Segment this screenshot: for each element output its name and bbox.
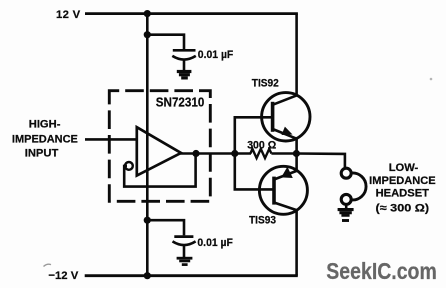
svg-text:SeekIC.com: SeekIC.com	[326, 258, 437, 284]
ground for C2	[177, 258, 193, 264]
wire jack to ground	[345, 205, 348, 209]
wire branch to capacitor C1	[147, 35, 184, 50]
wire input to op-amp	[85, 138, 137, 141]
Q2 emitter arrowhead	[281, 167, 293, 178]
svg-text:LOW-: LOW-	[389, 162, 419, 174]
wire TIS93 collector to -12V rail	[295, 210, 298, 276]
transistor Q2 TIS93 (PNP)	[259, 166, 307, 214]
wire +12V vertical drop through op-amp to -12V rail	[146, 14, 149, 276]
node op-amp output	[192, 150, 199, 157]
svg-text:0.01 µF: 0.01 µF	[197, 237, 233, 249]
capacitor C2 0.01 µF	[173, 237, 196, 257]
svg-text:INPUT: INPUT	[25, 148, 59, 160]
op-amp U1 package dashed box	[109, 91, 210, 202]
svg-text:SN72310: SN72310	[156, 94, 205, 109]
node -12V rail junction	[144, 272, 151, 279]
wire to TIS93 base	[235, 154, 273, 190]
headset jack sleeve contact (bottom circle)	[341, 194, 351, 204]
svg-text:IMPEDANCE: IMPEDANCE	[369, 175, 436, 187]
node transistor bases junction	[231, 150, 238, 157]
wire to TIS92 base	[235, 117, 272, 153]
wire TIS92 emitter to emitters node	[295, 139, 298, 154]
op-amp U1 triangle	[137, 127, 181, 175]
resistor R1 300 ohm	[250, 149, 271, 158]
wire TIS93 emitter to emitters node	[295, 154, 298, 171]
label LOW-IMPEDANCE HEADSET	[369, 162, 436, 214]
ground for headset jack	[338, 210, 354, 221]
headset earpiece arc	[351, 173, 366, 200]
wire output to headset jack	[297, 154, 345, 168]
transistor Q1 TIS92 (NPN)	[262, 93, 310, 141]
node emitters junction	[293, 150, 300, 157]
svg-text:TIS93: TIS93	[249, 214, 276, 226]
svg-text:−12 V: −12 V	[48, 270, 78, 282]
scan artifact squiggle near -12V label	[44, 264, 52, 266]
wire TIS92 collector to +12V rail	[295, 14, 298, 96]
scan artifact speck top right	[430, 78, 433, 81]
wire branch to capacitor C2	[147, 220, 184, 235]
capacitor C1 0.01 µF	[172, 50, 196, 70]
wire -12V rail	[85, 274, 298, 277]
svg-text:IMPEDANCE: IMPEDANCE	[12, 133, 79, 145]
svg-text:HEADSET: HEADSET	[376, 188, 430, 200]
svg-text:0.01 µF: 0.01 µF	[198, 49, 234, 61]
wire +12V rail	[85, 12, 298, 15]
Q1 emitter arrowhead	[282, 127, 293, 135]
wire op-amp output line	[179, 152, 251, 155]
node top rail junction	[144, 10, 151, 17]
node C1 branch junction	[144, 31, 151, 38]
wire R1 to emitters node	[271, 152, 296, 155]
svg-text:TIS92: TIS92	[252, 77, 279, 89]
svg-text:12 V: 12 V	[56, 9, 81, 21]
wire feedback loop output to inverting input	[124, 154, 195, 187]
op-amp inverting input bubble	[125, 162, 133, 170]
svg-text:(≈ 300 Ω): (≈ 300 Ω)	[376, 203, 430, 215]
label HIGH-IMPEDANCE INPUT	[12, 119, 79, 160]
svg-text:300 Ω: 300 Ω	[247, 139, 276, 151]
ground for C1	[177, 72, 192, 78]
node lower C2 branch junction	[144, 217, 151, 224]
svg-text:HIGH-: HIGH-	[29, 119, 61, 131]
headset jack tip contact (top circle)	[341, 168, 351, 178]
